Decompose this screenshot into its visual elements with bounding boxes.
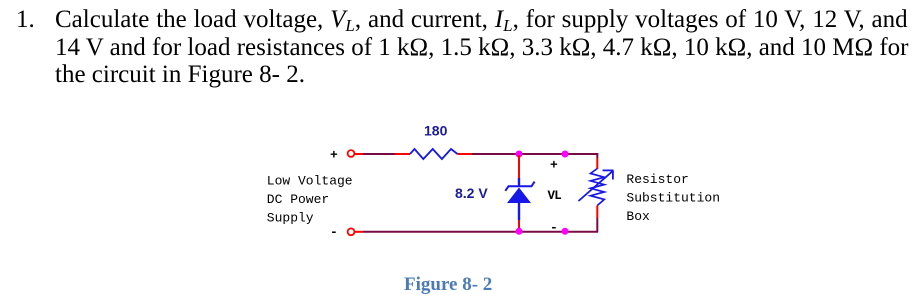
- wire: bottom net: [355, 231, 598, 233]
- svg-text:-: -: [330, 225, 338, 240]
- svg-text:Box: Box: [626, 209, 650, 224]
- svg-text:Substitution: Substitution: [626, 191, 720, 206]
- svg-text:Supply: Supply: [267, 211, 314, 226]
- junction: VL bottom node: [562, 228, 569, 235]
- zener diode D1 body: [505, 178, 534, 220]
- zener diode D1 top pin: [518, 155, 520, 178]
- svg-text:180: 180: [424, 122, 448, 138]
- problem paragraph: [16, 6, 35, 34]
- svg-text:+: +: [550, 158, 558, 173]
- figure caption: [404, 275, 492, 294]
- wire: right branch bottom: [596, 206, 598, 233]
- label: load - sign: [550, 220, 558, 235]
- wire: right branch top corner down: [596, 153, 598, 169]
- label: load + sign: [550, 158, 558, 173]
- value label 180: [424, 122, 448, 138]
- svg-text:VL: VL: [548, 189, 562, 203]
- junction: zener top node: [516, 151, 523, 158]
- svg-text:+: +: [330, 148, 338, 163]
- svg-text:8.2 V: 8.2 V: [455, 185, 488, 201]
- terminal: supply negative: [348, 228, 355, 235]
- resistor R1 180 ohm (body): [410, 149, 458, 159]
- svg-text:Resistor: Resistor: [626, 172, 688, 187]
- wire: top net from supply + terminal to resistor: [355, 153, 395, 155]
- label: supply - sign: [330, 225, 338, 240]
- terminal: supply positive: [348, 150, 355, 157]
- value label 8.2 V: [455, 185, 488, 201]
- junction: VL top node: [562, 151, 569, 158]
- variable resistor (substitution box) body: [579, 169, 614, 206]
- zener diode D1 bottom pin: [518, 220, 520, 231]
- svg-text:Low Voltage: Low Voltage: [267, 174, 353, 189]
- label: Low Voltage DC Power Supply: [267, 174, 353, 226]
- svg-text:DC Power: DC Power: [267, 192, 329, 207]
- wire: top net resistor to right corner: [472, 153, 598, 155]
- label: Resistor Substitution Box: [626, 172, 720, 224]
- label: supply + sign: [330, 148, 338, 163]
- resistor R1 180 ohm (pins): [395, 153, 472, 155]
- label: node VL: [548, 189, 562, 203]
- junction: zener bottom node: [516, 228, 523, 235]
